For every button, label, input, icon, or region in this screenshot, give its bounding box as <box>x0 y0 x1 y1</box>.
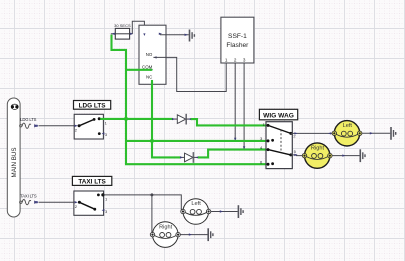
ground G5 <box>208 228 213 241</box>
svg-text:Right: Right <box>311 145 325 151</box>
svg-text:LDG LTS: LDG LTS <box>79 102 107 109</box>
svg-text:LDG LTS: LDG LTS <box>20 117 36 122</box>
relay K1 <box>139 25 166 84</box>
green junction node A <box>150 139 154 143</box>
svg-text:Left: Left <box>191 201 201 207</box>
green wire: relay NC down to pin3 line <box>151 80 153 141</box>
wire flasher pin 2 down to LDG feed line <box>234 63 236 141</box>
wire relay NO to flasher pin 1 <box>153 57 226 91</box>
green wire: timer feed down from switch junction <box>112 35 267 165</box>
lamp L2 Right (wig wag) <box>302 143 332 168</box>
lamp L1 Left (wig wag) <box>332 121 362 146</box>
timer U2 <box>111 28 134 39</box>
wire node C down to lamp L4 <box>151 195 153 235</box>
ground G2 <box>391 127 396 140</box>
svg-text:3: 3 <box>243 57 246 62</box>
ground G3 <box>360 149 365 162</box>
svg-text:2: 2 <box>234 57 237 62</box>
wire relay coil to ground <box>160 34 189 36</box>
wire taxi switch to lamps <box>104 195 183 212</box>
wire breaker F1 to switch S1 <box>39 125 77 127</box>
wire lamp L4 to ground G5 <box>180 234 207 236</box>
diode D1 <box>172 114 191 125</box>
svg-text:Right: Right <box>159 224 173 230</box>
breaker F1 (5A) <box>20 123 38 128</box>
wire lamp L2 to ground G3 <box>332 155 360 157</box>
label box TAXI LTS <box>72 176 111 185</box>
green wire: LDG switch to diode D1 <box>100 118 172 120</box>
wire wig wag pin 5 to lamp L2 <box>291 154 304 157</box>
flasher U1 SSF-1 <box>221 17 254 63</box>
svg-text:TAXI LTS: TAXI LTS <box>78 179 106 186</box>
lamp L3 Left (taxi) <box>181 199 211 225</box>
svg-text:NC: NC <box>146 75 152 80</box>
wire junction node C <box>150 193 153 196</box>
green wire: pin 3 feed line <box>126 140 266 142</box>
svg-text:Left: Left <box>343 123 353 129</box>
svg-text:30 SECS: 30 SECS <box>114 23 131 28</box>
wire timer to relay coil <box>132 21 144 34</box>
svg-text:SSF-1: SSF-1 <box>228 33 247 40</box>
switch S2 TAXI LTS <box>74 191 108 215</box>
ground G1 <box>190 30 195 42</box>
diode D2 <box>180 152 199 163</box>
wire flasher pin 3 down to NC feed line <box>243 63 245 150</box>
svg-text:COM: COM <box>142 64 153 69</box>
wire lamp L1 to ground G2 <box>362 132 390 134</box>
label box WIG WAG <box>259 109 297 120</box>
svg-text:1: 1 <box>225 57 228 62</box>
lamp L4 Right (taxi) <box>150 222 180 248</box>
green wire: node A down to diode D2 <box>152 141 181 158</box>
svg-text:WIG WAG: WIG WAG <box>263 112 294 119</box>
ground G4 <box>238 205 243 218</box>
green junction node B <box>124 117 128 121</box>
svg-text:Flasher: Flasher <box>226 42 249 49</box>
wire wig wag pin 2 to lamp L1 <box>291 132 334 134</box>
green wire: diode D1 to wig wag pin 1 <box>191 119 266 125</box>
svg-text:MAIN BUS: MAIN BUS <box>11 148 18 178</box>
green wire: branch to relay COM <box>126 69 152 71</box>
switch S3 WIG WAG (DPDT) <box>260 122 297 169</box>
svg-text:TAXI LTS: TAXI LTS <box>20 193 37 198</box>
wire breaker F2 to switch S2 <box>39 201 77 203</box>
MAIN BUS bar <box>7 98 20 217</box>
bus power tap symbol <box>11 104 19 110</box>
breaker F2 (5A) <box>20 200 38 205</box>
svg-text:NO: NO <box>146 52 153 57</box>
switch S1 LDG LTS <box>74 114 108 139</box>
green wire: diode D2 to wig wag pin 4 <box>198 150 266 158</box>
wire lamp L3 to ground G4 <box>211 211 238 213</box>
label box LDG LTS <box>74 101 111 110</box>
